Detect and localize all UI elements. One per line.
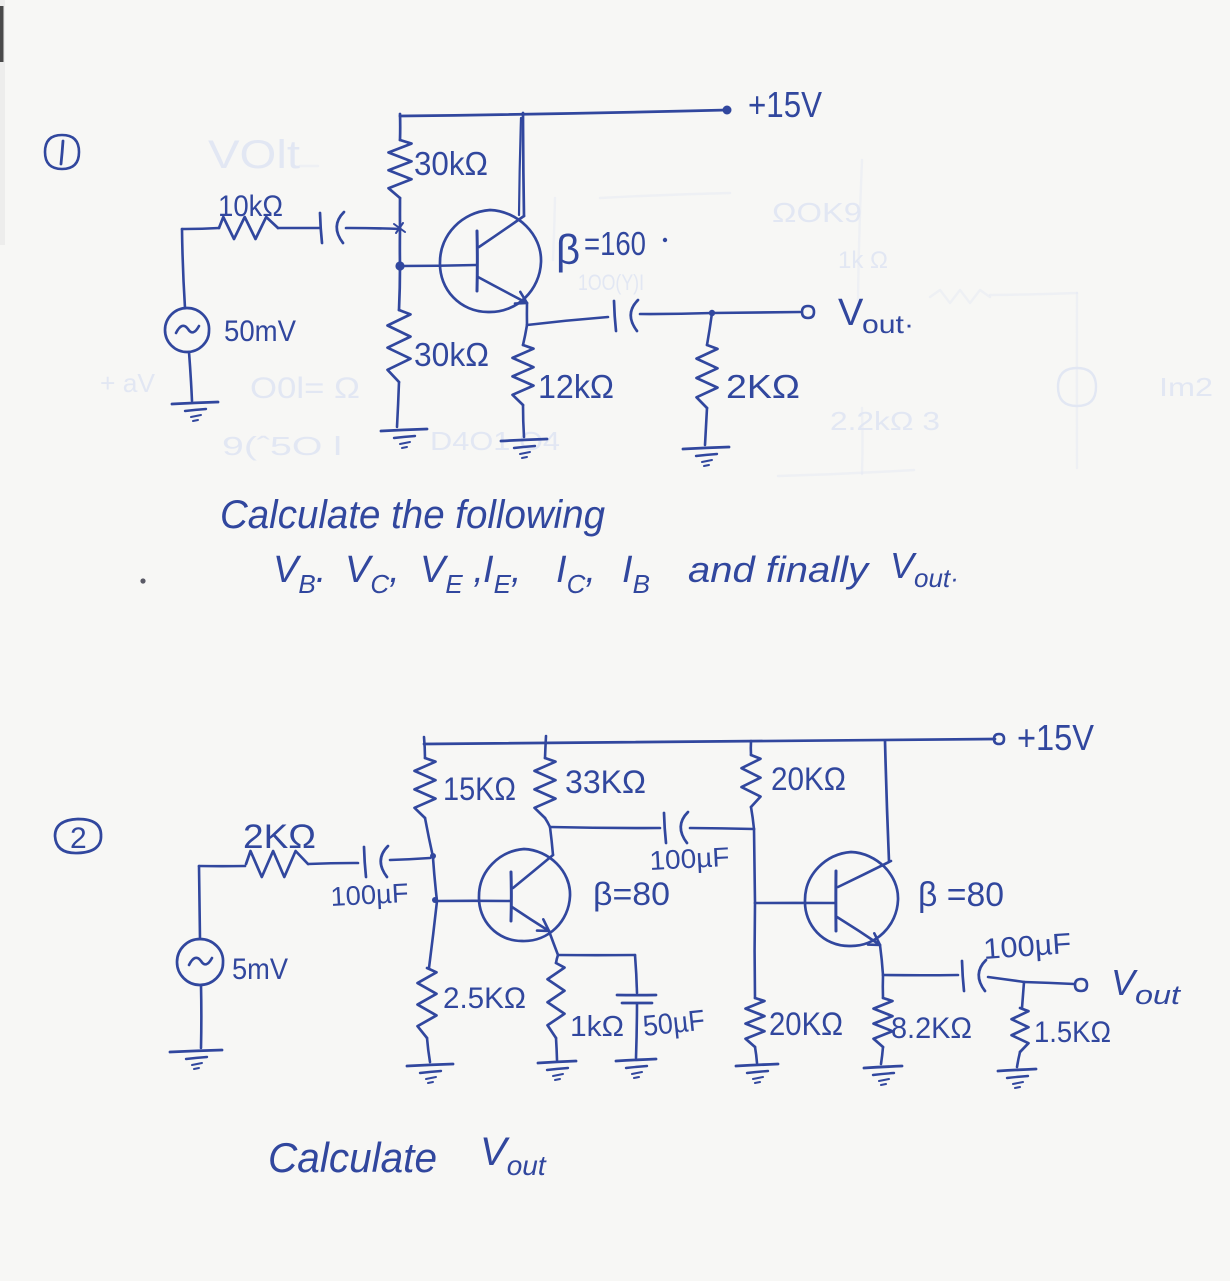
svg-text:=160: =160	[584, 225, 646, 262]
svg-text:2KΩ: 2KΩ	[726, 368, 800, 405]
svg-text:1k Ω: 1k Ω	[838, 247, 888, 274]
svg-text:+ aV: + aV	[100, 368, 156, 398]
svg-text:8.2KΩ: 8.2KΩ	[891, 1012, 972, 1045]
svg-text:O0l= Ω: O0l= Ω	[250, 372, 360, 405]
svg-text:12kΩ: 12kΩ	[538, 368, 614, 405]
svg-text:D4O1 O4: D4O1 O4	[430, 426, 560, 456]
svg-text:1OO(Y)I: 1OO(Y)I	[578, 270, 644, 295]
svg-text:50µF: 50µF	[641, 1005, 706, 1043]
svg-text:33KΩ: 33KΩ	[565, 764, 646, 800]
svg-text:10kΩ: 10kΩ	[218, 190, 283, 223]
svg-text:50mV: 50mV	[224, 315, 296, 348]
svg-text:+15V: +15V	[1017, 717, 1094, 758]
svg-text:30kΩ: 30kΩ	[414, 336, 489, 373]
svg-text:20KΩ: 20KΩ	[771, 761, 846, 797]
svg-text:2.5KΩ: 2.5KΩ	[443, 982, 526, 1015]
svg-text:ΩOK9: ΩOK9	[772, 197, 862, 228]
svg-text:100µF: 100µF	[649, 842, 730, 876]
svg-text:β: β	[556, 226, 580, 273]
svg-text:and finally: and finally	[688, 549, 870, 590]
svg-text:2: 2	[70, 822, 87, 855]
svg-text:β=80: β=80	[593, 876, 670, 912]
svg-text:100µF: 100µF	[982, 928, 1072, 966]
svg-text:5mV: 5mV	[232, 953, 288, 986]
svg-text:Im2: Im2	[1159, 372, 1213, 402]
svg-text:Calculate the following: Calculate the following	[220, 493, 605, 537]
svg-text:100µF: 100µF	[330, 878, 409, 912]
svg-text:1kΩ: 1kΩ	[570, 1011, 624, 1043]
svg-text:1.5KΩ: 1.5KΩ	[1034, 1016, 1111, 1049]
svg-text:β =80: β =80	[918, 876, 1004, 914]
svg-text:2KΩ: 2KΩ	[243, 818, 316, 856]
svg-text:V: V	[838, 292, 864, 334]
svg-text:15KΩ: 15KΩ	[443, 771, 516, 807]
svg-text:out·: out·	[862, 309, 914, 339]
svg-text:Calculate: Calculate	[268, 1134, 437, 1181]
svg-text:9(ˆ5O l: 9(ˆ5O l	[222, 431, 342, 461]
svg-text:VOlt: VOlt	[208, 133, 300, 177]
svg-text:30kΩ: 30kΩ	[414, 145, 488, 182]
svg-text:20KΩ: 20KΩ	[769, 1006, 843, 1042]
svg-text:+15V: +15V	[748, 84, 822, 125]
svg-text:2.2kΩ 3: 2.2kΩ 3	[830, 406, 940, 436]
